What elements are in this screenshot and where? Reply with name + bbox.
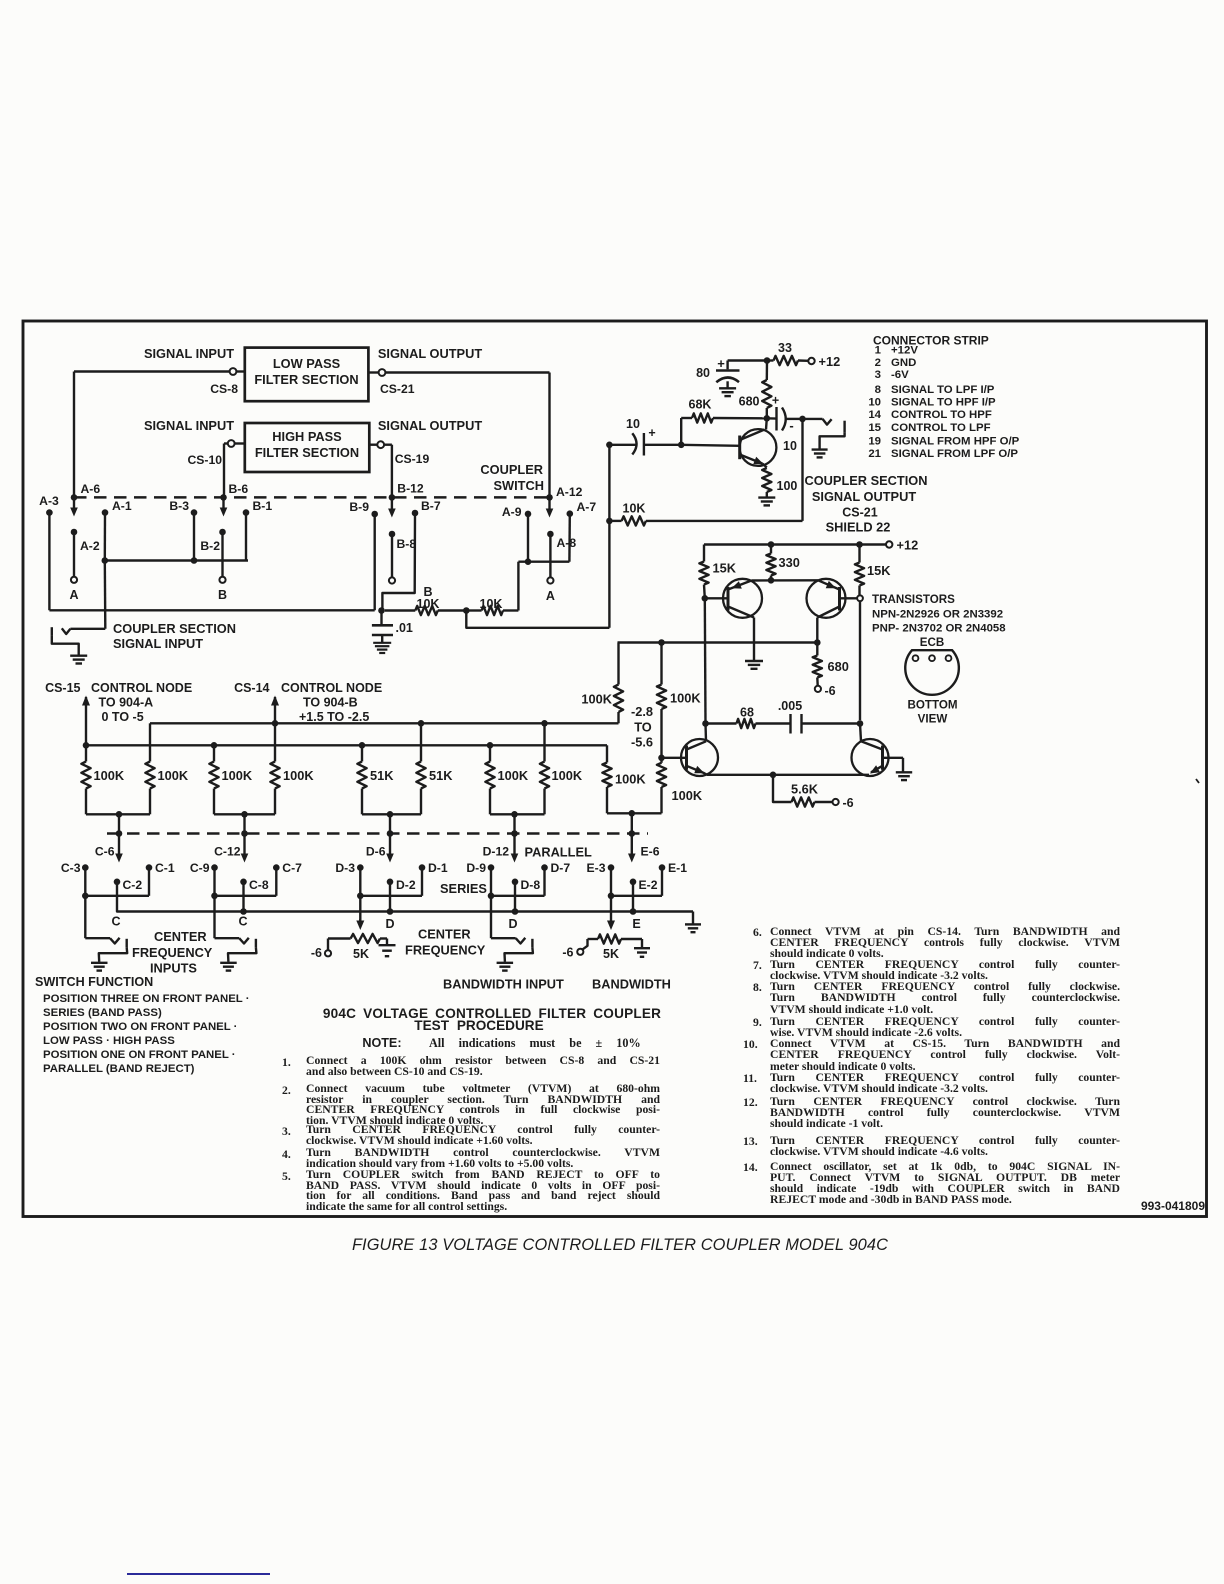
svg-text:-6: -6 [843,796,854,810]
svg-text:+12: +12 [897,538,919,553]
svg-text:68K: 68K [689,398,712,412]
svg-text:CONTROL TO HPF: CONTROL TO HPF [891,409,992,421]
svg-text:+1.5 TO -2.5: +1.5 TO -2.5 [299,710,369,724]
ground (coupler section signal input) [70,655,87,657]
svg-text:SHIELD 22: SHIELD 22 [826,520,891,535]
switch wiper arrow A-12 [548,500,550,511]
junction C-8 bus [242,882,244,912]
junction output node [799,416,806,423]
svg-text:100K: 100K [283,768,314,783]
svg-text:SIGNAL INPUT: SIGNAL INPUT [113,636,203,651]
junction rail B x544 [541,720,548,727]
junction rail B x421 [418,720,425,727]
svg-text:TO 904-B: TO 904-B [303,696,358,710]
ground (5K E) [634,947,650,949]
svg-text:680: 680 [739,395,760,409]
wire bank D1 [359,868,361,896]
svg-text:SERIES: SERIES [440,881,487,896]
switch wiper arrow A-6 [73,500,75,510]
ground (cap 80) [719,387,736,389]
dashed switch line lower [107,832,648,835]
junction between 10K resistors [463,607,470,614]
resistor 100K (ladder x544) [543,723,545,761]
capacitor 10 output [767,417,777,420]
wire A-8 to terminal A [549,534,551,577]
low pass filter section block [245,348,369,402]
svg-text:10: 10 [868,397,881,409]
contact C-3 [82,864,89,871]
switch wiper arrow B-12 [391,500,393,511]
svg-text:A-1: A-1 [112,499,132,513]
svg-text:100K: 100K [158,768,189,783]
wire C-2 to ground bus [117,882,693,912]
svg-text:CS-15: CS-15 [45,681,80,695]
svg-text:LOW PASS: LOW PASS [273,356,341,371]
svg-text:SIGNAL INPUT: SIGNAL INPUT [144,418,234,433]
resistor 100 (emitter) [762,468,771,492]
wire A-6 net vertical [73,372,75,498]
svg-text:CONTROL NODE: CONTROL NODE [281,681,382,695]
svg-text:D-6: D-6 [366,845,386,859]
contact A-9 [525,511,532,518]
contact A-2 [71,529,78,536]
svg-text:COUPLER: COUPLER [480,462,543,477]
junction rail A x490 [487,742,494,749]
transistor Q2 pnp (left) [723,579,762,618]
svg-text:TO: TO [634,720,652,735]
contact B-3 [191,509,198,516]
junction base node [678,442,685,449]
svg-text:A-6: A-6 [81,482,101,496]
resistor 100K (rail B column) [617,643,619,685]
contact E-2 [630,879,637,886]
switch arm pole bar [51,627,53,635]
contact B-1 [243,509,250,516]
contact C-1 [146,864,153,871]
contact A-3 [46,509,53,516]
svg-text:B: B [218,588,227,602]
wire E-6 bottom link [607,812,662,814]
svg-text:-6V: -6V [891,369,909,381]
pin Q3 base node [857,595,863,601]
transistor can bottom view [905,650,959,695]
svg-text:100K: 100K [581,692,612,707]
switch arm pole bar [531,939,533,948]
junction .01/10K node [378,607,385,614]
svg-text:21: 21 [868,448,881,460]
resistor 100K (ladder x214) [213,745,215,761]
contact D-3 [357,864,364,871]
svg-text:SIGNAL FROM HPF O/P: SIGNAL FROM HPF O/P [891,435,1020,447]
junction rail A x86 [83,742,90,749]
svg-text:CS-19: CS-19 [395,452,430,466]
svg-text:-6: -6 [562,946,573,960]
wire Q3 collector down [816,618,818,643]
svg-text:10K: 10K [417,597,440,611]
svg-text:CS-21: CS-21 [380,382,415,396]
transistor Q5 npn (right) [852,739,889,776]
switch arm pole bar [255,939,257,948]
svg-text:C: C [111,915,120,929]
svg-text:+: + [648,426,655,440]
svg-text:-6: -6 [311,946,322,960]
resistor 100K (rail A column) [606,745,608,762]
wire bank D2 [490,868,492,896]
wire A-3 down to coupler input wire [48,513,50,611]
resistor 10K (A) [466,609,481,611]
node E-6 junction [629,830,636,837]
svg-text:80: 80 [696,366,710,380]
switch wiper arrow B-6 [222,500,224,510]
junction 330 bottom [768,577,775,584]
terminal -6 (5K E) [577,949,583,955]
contact D-1 [419,864,426,871]
junction collector node [764,415,771,422]
switch function list [35,975,315,1076]
svg-text:100K: 100K [498,768,529,783]
resistor 10K (B) [385,609,416,611]
resistor 33 [767,359,774,361]
svg-text:TRANSISTORS: TRANSISTORS [872,593,955,606]
svg-text:CONTROL NODE: CONTROL NODE [91,681,192,695]
svg-text:B-12: B-12 [397,482,424,496]
wire pole to ground [52,635,79,654]
svg-text:D-9: D-9 [466,861,486,875]
svg-text:51K: 51K [429,768,453,783]
junction 5.6K node [770,772,777,779]
wire E wiper to 5K [610,896,612,921]
svg-text:A-7: A-7 [577,500,597,514]
svg-text:SIGNAL TO HPF I/P: SIGNAL TO HPF I/P [891,397,996,409]
junction 15K right top [856,541,863,548]
switch arm contact V [239,938,249,944]
svg-text:+: + [717,356,725,371]
ground (emitter resistor) [758,496,775,498]
junction E-2 bus [632,882,634,912]
svg-text:BOTTOM: BOTTOM [907,699,957,712]
junction bank E [608,893,615,900]
switch wiper arrow C-12 [243,836,245,856]
junction rail B x275 [272,720,279,727]
svg-text:100K: 100K [94,768,125,783]
svg-text:A-12: A-12 [556,485,583,499]
svg-text:-: - [789,418,793,433]
contact C-9 [211,864,218,871]
junction bank C2 [211,893,218,900]
wire output bus up to input cap node [608,445,610,628]
junction rail A x214 [211,742,218,749]
pin CS-8 terminal [230,368,237,375]
transistor Q1 npn emitter follower [740,429,777,466]
svg-text:15: 15 [868,422,881,434]
svg-text:B-2: B-2 [200,539,220,553]
potentiometer 5K (bandwidth E) [588,938,599,940]
switch wiper arrow D-6 [389,836,391,856]
wire cap to base node [644,444,681,446]
svg-text:CONTROL TO LPF: CONTROL TO LPF [891,422,991,434]
right procedure column [770,926,1120,960]
svg-text:+12V: +12V [891,345,918,357]
wire bucket C2 pair [214,813,245,815]
svg-text:TO 904-A: TO 904-A [99,696,154,710]
svg-text:COUPLER SECTION: COUPLER SECTION [113,621,236,636]
junction B-3 [191,557,198,564]
switch arm wire [213,896,215,938]
terminal +12 (coupler) [808,358,814,364]
svg-text:D-12: D-12 [483,845,510,859]
svg-text:C-12: C-12 [214,845,241,859]
contact C-2 [114,879,121,886]
svg-text:PNP- 2N3702 OR 2N4058: PNP- 2N3702 OR 2N4058 [872,623,1006,635]
svg-text:SIGNAL OUTPUT: SIGNAL OUTPUT [378,418,482,433]
switch arm wire [84,896,86,938]
output switch arm V [823,419,832,425]
junction D-12 bucket [511,811,518,818]
wire pole to ground [228,948,256,962]
terminal -6 (680) [815,686,821,692]
junction A-1/B wire [102,557,109,564]
border frame [23,321,1207,1217]
output arm pole bar [843,421,845,433]
svg-text:5.6K: 5.6K [791,782,819,797]
svg-text:CS-14: CS-14 [234,681,269,695]
svg-text:CS-21: CS-21 [842,506,877,520]
wire B-3 down [193,513,195,561]
svg-text:-2.8: -2.8 [631,704,653,719]
figure caption [8,1236,1224,1255]
svg-text:PARALLEL: PARALLEL [525,845,592,860]
svg-text:51K: 51K [370,768,394,783]
pin CS-21 terminal [368,371,378,373]
wire pole to shield ground [820,433,845,449]
contact D-2 [387,879,394,886]
node A-12 junction [546,494,553,501]
contact D-7 [541,864,548,871]
wire B-7 step to junction [382,513,415,611]
junction D-8 bus [514,882,516,912]
wire +12 rail (pair) [704,543,886,545]
ground (switch arm) [497,962,513,964]
wire rail A [86,744,607,746]
wire B-8 to terminal [391,534,393,577]
wire B-9 down [374,514,376,610]
resistor 100K (ladder x86) [85,745,87,761]
pin B (can) [946,655,952,661]
svg-text:NPN-2N2926 OR 2N3392: NPN-2N2926 OR 2N3392 [872,609,1003,621]
junction rail A x362 [359,742,366,749]
wire B-1 down [245,513,247,561]
capacitor 10 input [612,444,636,446]
capacitor .005 [756,722,790,724]
junction bank D2 [488,893,495,900]
resistor 100K (ladder x275) [274,723,276,761]
junction input cap node [606,442,613,449]
ground (5K D) [379,944,396,946]
junction 10K output node [606,518,613,525]
svg-text:C-7: C-7 [282,861,302,875]
svg-text:15K: 15K [713,561,737,576]
wire junction down to output bus [466,611,609,628]
stray mark right edge [1196,779,1199,783]
junction Q2 base node [702,595,709,602]
svg-text:HIGH PASS: HIGH PASS [272,429,342,444]
svg-text:1: 1 [875,345,882,357]
svg-text:D: D [385,917,394,931]
terminal +12 (pair) [886,541,892,547]
svg-text:33: 33 [778,341,792,355]
wire Q2 base node down to 68 node [704,598,707,723]
wire CS-8 input [74,370,230,372]
junction .005 right node [857,720,864,727]
wire bank C1 [84,868,86,896]
node C-6 junction [116,830,123,837]
svg-text:+12: +12 [819,354,841,369]
svg-text:19: 19 [868,435,881,447]
wire D1 wiper to 5K [359,896,361,921]
svg-text:SIGNAL FROM LPF O/P: SIGNAL FROM LPF O/P [891,448,1018,460]
junction 100K top (col2) [658,639,665,646]
pin C (can) [929,655,935,661]
svg-text:B-9: B-9 [349,500,369,514]
svg-text:FILTER SECTION: FILTER SECTION [255,445,359,460]
svg-text:+: + [772,394,779,408]
wire pole to ground [99,948,127,962]
svg-text:B-3: B-3 [169,499,189,513]
wire A-7 down [568,514,571,562]
switch wiper arrow C-6 [118,836,120,856]
contact C-7 [273,864,280,871]
svg-text:B-7: B-7 [421,499,441,513]
svg-text:.005: .005 [778,699,802,713]
terminal B-8 open [389,577,395,583]
svg-text:2: 2 [875,357,881,369]
junction D-6 bucket [387,811,394,818]
switch wiper arrow D-12 [513,836,515,856]
junction 68 left node [702,720,709,727]
ground (C bus) [685,923,701,925]
svg-text:SIGNAL OUTPUT: SIGNAL OUTPUT [812,489,916,504]
wire bank A2 horizontal [518,561,569,563]
svg-text:SWITCH: SWITCH [494,478,544,493]
svg-text:A-8: A-8 [557,536,577,550]
svg-text:3: 3 [875,369,881,381]
wire base node up to 68K [680,418,682,445]
junction bank D1 [357,893,364,900]
wire pole to ground [505,948,533,962]
wire base node to transistor base [681,445,740,446]
potentiometer 5K (center frequency D) [328,937,351,939]
wire A-9 down [527,514,529,562]
resistor 68 [706,722,737,724]
node B-6 junction [220,494,227,501]
resistor 100K (Q4 base lower) [660,758,662,763]
test procedure title [286,1006,698,1049]
svg-text:-5.6: -5.6 [631,735,653,750]
svg-text:C: C [238,915,247,929]
svg-text:E: E [632,917,640,931]
drawing number [1005,1199,1205,1213]
wire 10K-A up to bank A2 [517,562,519,611]
svg-text:680: 680 [828,659,849,674]
contact A-7 [567,510,574,517]
junction C-6 bucket [116,811,123,818]
svg-text:5K: 5K [603,947,619,961]
svg-text:D-7: D-7 [551,861,571,875]
svg-text:.01: .01 [396,621,413,635]
wire output cap to output node [787,418,803,420]
blue scan mark [127,1573,270,1575]
svg-text:D-1: D-1 [428,861,448,875]
resistor 5.6K to -6 [773,775,792,802]
ground (.01 capacitor) [373,642,391,644]
wire emitter rail (npn pair) [707,774,869,776]
wire Q2 collector to ground [753,618,755,661]
svg-text:C-6: C-6 [95,845,115,859]
switch arm contact V [516,938,526,944]
svg-text:C-9: C-9 [190,861,210,875]
junction D-2 bus [389,882,391,912]
node D-6 junction [387,830,394,837]
terminal A (bank 2) [547,577,553,583]
wire B-2 to terminal B [221,532,223,577]
node D-12 junction [511,830,518,837]
resistor 100K (ladder x150) [149,723,151,761]
wire +12 node to cap 80 [728,359,767,361]
pin CS-10 terminal [235,442,245,444]
switch arm wire [490,896,492,938]
wire bucket D pair [362,813,390,815]
wire output node down to 10K bus [801,419,803,521]
junction C-12 bucket [241,811,248,818]
resistor 680 (collector) [766,361,769,381]
junction A-9 [525,558,532,565]
resistor 15K left [703,545,705,562]
svg-text:FILTER SECTION: FILTER SECTION [254,372,358,387]
terminal -6 (5K D) [325,950,331,956]
node A-6 junction [71,494,78,501]
contact E-1 [659,864,666,871]
resistor 100K (ladder x490) [489,745,491,761]
wire CS-19 to B-12 [384,444,392,446]
svg-text:C-8: C-8 [249,878,269,892]
svg-text:14: 14 [868,409,881,421]
contact B-7 [412,510,419,517]
svg-text:10: 10 [783,439,797,453]
wire emitter node wire y642 [618,641,818,643]
wire Q5 base to ground [902,758,904,772]
svg-text:CENTER: CENTER [154,929,207,944]
resistor 680 (pair) [816,643,818,656]
svg-text:E-2: E-2 [639,878,658,892]
svg-text:BANDWIDTH INPUT: BANDWIDTH INPUT [443,977,564,992]
resistor 100K (Q4 base upper) [660,643,662,685]
svg-text:100K: 100K [670,691,701,706]
wire bucket D2 pair [490,813,515,815]
contact B-9 [371,511,378,518]
contact C-8 [240,879,247,886]
control node CS-14 arrow [274,703,276,723]
resistor 330 [770,545,772,554]
junction +12 node [764,357,771,364]
svg-text:INPUTS: INPUTS [150,961,197,976]
svg-text:330: 330 [779,555,800,570]
svg-text:C-1: C-1 [155,861,175,875]
wire bucket C pair [86,813,119,815]
transistor Q4 npn (left) [681,739,718,776]
wire coupler input bus [49,609,374,611]
svg-text:C-3: C-3 [61,861,81,875]
svg-text:100K: 100K [552,768,583,783]
